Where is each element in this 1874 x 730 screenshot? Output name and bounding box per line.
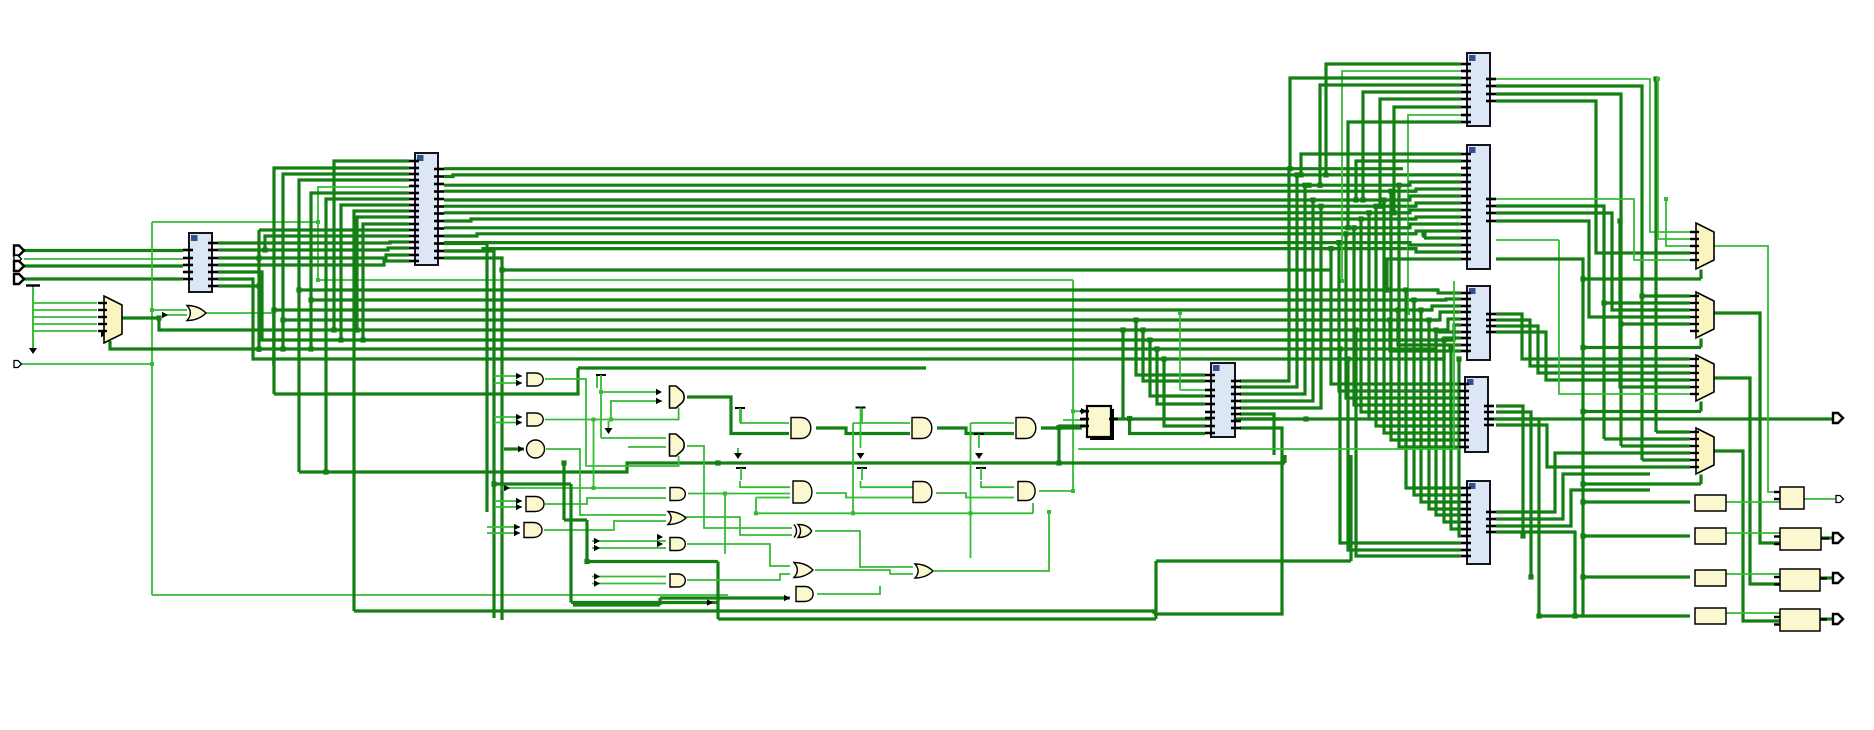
wire h484 <box>494 482 571 485</box>
input arrow <box>101 331 107 337</box>
wire a5-b4in2 <box>544 521 666 530</box>
wire y3 out <box>1819 576 1833 579</box>
wire r4 y426 <box>1376 206 1459 426</box>
wire b5-c4in1 <box>687 544 790 566</box>
wire mux input <box>33 302 97 304</box>
mux M0 pin stubs <box>98 303 107 331</box>
wire r3p9 <box>1398 310 1461 345</box>
junction <box>1601 300 1606 305</box>
wire thin y449 <box>1078 448 1460 450</box>
junction <box>1377 204 1382 209</box>
wire r4 y440 <box>1391 191 1459 440</box>
wire c2 in2 <box>756 497 790 499</box>
wire r5 up <box>1496 474 1650 519</box>
wire bus1 line y242.6 <box>444 241 1410 244</box>
wire bus1 line y168.7 <box>444 167 1403 170</box>
input arrow <box>594 573 600 579</box>
wire r1p1 <box>1326 64 1461 175</box>
wire sb2 in <box>1583 534 1690 537</box>
wire r3 y306 <box>1426 306 1461 310</box>
wire jog y191.2-189 <box>1408 189 1461 191</box>
wire r5 y509 <box>1429 320 1461 509</box>
junction <box>1140 327 1145 332</box>
wire sb4 ext <box>1539 614 1583 617</box>
wire h561 <box>587 560 718 563</box>
wire line y270 <box>444 258 1330 270</box>
wire r4 y433 <box>1384 200 1459 433</box>
or gate OR1 <box>187 306 206 321</box>
wire bottom bus y619 <box>718 617 1156 620</box>
junction <box>1133 317 1138 322</box>
junction <box>1337 346 1342 351</box>
wire r2 pin238 stub <box>1424 236 1461 239</box>
wire bus1 line y185.2 <box>444 184 1410 187</box>
mux M4 pin stubs <box>1690 432 1699 467</box>
wire mux out <box>121 316 159 319</box>
wire m1 in1 thin <box>1496 79 1690 232</box>
buffer B4 <box>1695 608 1726 624</box>
wire cr2 <box>1240 175 1297 387</box>
wire v1351 <box>1349 455 1352 561</box>
input pin B <box>14 256 22 263</box>
wire input d <box>22 363 152 365</box>
wire r1p7 <box>1394 107 1461 213</box>
wire r2p2 <box>1356 161 1461 200</box>
mux M2 <box>1696 292 1714 338</box>
wire bus1 line y233.8 <box>444 234 1416 236</box>
wire a1 out-b2sel <box>545 379 679 466</box>
inverter A3 <box>527 440 545 458</box>
junction <box>1071 489 1075 493</box>
wire m2 in2 <box>1496 206 1690 303</box>
register FD1 <box>1087 406 1114 440</box>
wire a1 in <box>494 375 522 377</box>
wire r3 y319 <box>1442 319 1461 330</box>
junction <box>150 308 154 312</box>
junction <box>1353 197 1358 202</box>
wire bus2 thin line <box>318 279 1073 281</box>
wire a2-b1in2 <box>611 401 662 420</box>
junction <box>1302 183 1307 188</box>
and gate B3 <box>670 488 685 501</box>
junction <box>1358 216 1363 221</box>
junction <box>256 346 261 351</box>
wire c5 out <box>817 586 880 594</box>
wire jog y212.8-210 <box>1402 210 1461 213</box>
wire m2 in4 <box>1496 221 1690 317</box>
junction <box>1580 345 1585 350</box>
junction <box>1336 240 1341 245</box>
junction <box>599 390 603 394</box>
wire bus2 y290 <box>299 288 1438 291</box>
wire bl-b p2 <box>218 248 409 250</box>
wire c-in 3 <box>1157 349 1205 404</box>
wire input c <box>24 264 183 267</box>
junction <box>1287 166 1292 171</box>
wire c-in 2 <box>1150 340 1205 396</box>
input arrow <box>516 419 522 425</box>
output pin O4 <box>1833 573 1843 583</box>
wire mux input <box>33 330 97 332</box>
wire y513 left <box>756 512 846 514</box>
junction <box>1345 356 1350 361</box>
mux M1 <box>1696 223 1714 269</box>
junction <box>1418 307 1423 312</box>
wire m3 sel stub <box>1699 402 1702 412</box>
wire m2 sel stub <box>1699 339 1702 348</box>
wire sb1 in <box>1583 500 1690 503</box>
buffer B2 <box>1695 528 1726 544</box>
wire r4 y412 <box>1361 219 1459 412</box>
junction <box>1306 183 1311 188</box>
input arrow <box>504 485 510 491</box>
wire m4 in3 <box>1621 444 1690 447</box>
wire b2 in2 <box>628 446 666 448</box>
wire bus2 line y340 <box>218 272 1454 340</box>
junction <box>1580 499 1585 504</box>
input pin A <box>14 246 24 256</box>
wire a5 in <box>487 526 520 528</box>
junction <box>1294 172 1299 177</box>
wire t-d2 <box>861 481 915 487</box>
input arrow <box>594 580 600 586</box>
junction <box>1353 327 1358 332</box>
input pin D <box>14 361 22 368</box>
wire m4 in4 <box>1496 453 1690 512</box>
constant T6 <box>857 468 867 480</box>
wire t1-b1 <box>601 391 658 393</box>
block U7 logic <box>1459 377 1494 452</box>
wire r5 y502 <box>1421 310 1461 502</box>
wire bus1 line y227.8 <box>444 226 1410 229</box>
wire r4 y447 <box>1399 185 1459 447</box>
junction <box>1448 346 1453 351</box>
block U6 logic <box>1461 286 1496 360</box>
output pin O3 <box>1833 533 1843 543</box>
junction <box>308 297 313 302</box>
wire a2 in <box>494 416 522 418</box>
input arrow <box>656 398 662 404</box>
wire v1642 ext <box>1640 296 1643 460</box>
wire cr5 <box>1240 206 1321 408</box>
wire d1-e1 <box>937 428 1014 434</box>
junction <box>1441 337 1446 342</box>
wire stair b236 <box>265 236 409 250</box>
wire r3 y312 <box>1434 312 1461 320</box>
wire stair b224 <box>363 224 409 340</box>
or gate D3 <box>915 564 933 578</box>
wire m1 in2 thin <box>1658 79 1690 239</box>
wire m4 out <box>1714 451 1780 621</box>
junction <box>1310 197 1315 202</box>
wire v259 <box>257 230 260 352</box>
input arrow <box>657 534 663 540</box>
junction <box>1303 416 1308 421</box>
junction <box>1384 287 1389 292</box>
wire bus1 line y206.2 <box>444 205 1416 208</box>
wire or input stub <box>162 314 187 316</box>
wire or input <box>152 309 187 311</box>
wire net1 vertical <box>151 222 153 595</box>
wire mux input <box>33 323 97 325</box>
junction <box>316 220 320 224</box>
block U2 register bank <box>409 153 444 265</box>
wire e1-reg <box>1041 426 1085 428</box>
junction <box>1639 293 1644 298</box>
input arrow <box>657 541 663 547</box>
wire bl-b p1 <box>218 242 409 243</box>
wire thin v1454 <box>1453 281 1455 449</box>
wire m3 in5 <box>1620 221 1690 387</box>
junction <box>1396 183 1401 188</box>
wire thin r2x <box>1496 239 1559 241</box>
ground G3 <box>605 421 613 434</box>
wire r5 y529 <box>1451 349 1461 529</box>
wire v487 <box>444 244 487 513</box>
junction <box>1366 210 1371 215</box>
wire m3 sel <box>1583 410 1701 413</box>
input arrow <box>516 414 522 420</box>
wire y4 out <box>1819 617 1833 620</box>
wire h605 <box>573 603 660 606</box>
buffer B1 <box>1695 495 1726 511</box>
junction <box>1395 307 1400 312</box>
wire bus1 line y219 <box>444 219 1416 221</box>
wire r5 y488 <box>1406 290 1461 488</box>
junction <box>256 255 261 260</box>
block U1 buffer bank <box>183 233 218 292</box>
junction <box>1536 613 1541 618</box>
junction <box>1071 409 1075 413</box>
wire v970 <box>970 423 972 558</box>
junction <box>1336 240 1341 245</box>
wire r2 v238 <box>1422 234 1425 238</box>
wire cr3 <box>1240 185 1305 394</box>
wire r4 y398 <box>1346 234 1459 398</box>
wire r1p8 thin <box>1408 115 1461 313</box>
junction <box>331 327 336 332</box>
wire r5p11 <box>1356 330 1461 556</box>
wire m3 in1 <box>1496 314 1690 359</box>
and gate E2 <box>1018 482 1035 501</box>
junction <box>1154 346 1159 351</box>
wire v1656 <box>1654 79 1657 432</box>
wire or out <box>205 313 273 366</box>
input arrow <box>518 446 524 452</box>
junction <box>308 346 313 351</box>
wire r2p15 <box>1387 259 1461 290</box>
junction <box>1340 279 1344 283</box>
wire regout-cin <box>1130 419 1205 434</box>
wire a5 in <box>487 532 520 534</box>
wire cr8 bottom <box>1154 428 1282 614</box>
block U5 register bank <box>1461 145 1496 269</box>
block U8 logic <box>1461 481 1496 564</box>
junction <box>1411 297 1416 302</box>
wire bl-b p3 <box>218 255 409 258</box>
junction <box>1147 337 1152 342</box>
wire b3 drop <box>724 494 726 555</box>
junction <box>1580 409 1585 414</box>
constant T4 <box>974 434 984 448</box>
input arrow <box>1081 408 1087 414</box>
wire line y394 <box>274 368 578 394</box>
wire cr6 <box>1240 414 1274 455</box>
junction <box>754 511 758 515</box>
junction <box>1056 460 1061 465</box>
wire jog y242.6-245 <box>1402 243 1461 245</box>
wire r1p6 <box>1380 99 1461 206</box>
wire v853 <box>852 423 854 513</box>
junction <box>1406 311 1410 315</box>
wire <box>755 498 757 514</box>
wire cr1 <box>1240 169 1289 381</box>
junction <box>150 362 154 366</box>
wire h561 <box>1156 559 1351 562</box>
wire c-thin v <box>1179 313 1181 390</box>
wire b6 in <box>592 576 666 578</box>
wire y513 hook <box>1032 503 1034 513</box>
input arrow <box>162 312 168 318</box>
or gate B4 <box>668 512 686 525</box>
wire stair b199 <box>326 199 409 472</box>
junction <box>1360 197 1365 202</box>
wire r5p10 <box>1348 359 1461 550</box>
wire reg in2 thin <box>1063 419 1085 421</box>
wire m2 in5 <box>1496 94 1690 324</box>
wire m4 in6 <box>1496 425 1690 467</box>
wire net y513 <box>846 512 1033 514</box>
junction <box>1572 613 1577 618</box>
obuf Y4 <box>1780 609 1820 631</box>
and gate C1 <box>791 418 811 439</box>
muxcy gate B1 <box>670 386 685 408</box>
junction <box>1426 317 1431 322</box>
block U4 mux bank <box>1461 53 1496 126</box>
wire thin b186 <box>318 186 409 188</box>
wire c-out stub <box>1240 417 1281 420</box>
wire mux input <box>33 316 97 318</box>
wire d2-e2 <box>936 493 1014 498</box>
junction <box>262 247 267 252</box>
junction <box>323 469 328 474</box>
wire sb1 out <box>1726 501 1780 503</box>
wire v502 <box>500 270 503 620</box>
wire v1621 ext <box>1619 324 1622 446</box>
wire m2 out <box>1714 313 1780 543</box>
junction <box>609 418 613 422</box>
junction <box>1373 204 1378 209</box>
mux M1 pin stubs <box>1690 232 1699 260</box>
wire bus2 y310 <box>274 308 1432 311</box>
junction <box>1343 231 1348 236</box>
wire c-in thin1 <box>1180 389 1205 391</box>
ground G1 bar <box>26 284 40 286</box>
junction <box>1323 172 1328 177</box>
junction <box>1433 327 1438 332</box>
wire tstub <box>596 375 598 388</box>
wire m3 in3 <box>1496 326 1690 373</box>
wire r5 y515 <box>1436 330 1461 515</box>
constant T7 <box>976 468 986 480</box>
wire net2 bottom <box>152 594 728 596</box>
junction <box>1345 225 1350 230</box>
junction <box>1120 327 1125 332</box>
wire d1 in1 <box>853 422 910 424</box>
wire v494 <box>444 251 494 618</box>
wire bus1 line y200 <box>444 198 1410 201</box>
constant T2 <box>735 408 745 423</box>
wire a4 in <box>494 500 522 502</box>
or gate C4 <box>794 563 813 578</box>
wire jog y200-196 <box>1402 196 1461 200</box>
junction <box>1653 76 1658 81</box>
junction <box>256 283 261 288</box>
and gate A2 <box>527 413 543 426</box>
xor gate C3 <box>794 525 812 538</box>
wire r5p4 drop <box>1496 532 1575 616</box>
junction <box>280 346 285 351</box>
junction <box>592 486 596 490</box>
wire b3in1 <box>500 487 666 489</box>
wire r3 y338 <box>1438 338 1461 359</box>
wire a4-b3in2 <box>545 498 666 504</box>
and gate C2 <box>793 481 812 503</box>
wire e1 in1 <box>971 422 1015 424</box>
junction <box>723 492 727 496</box>
junction <box>271 307 276 312</box>
wire sel chain <box>1496 259 1690 616</box>
junction <box>715 460 720 465</box>
wire input a <box>24 249 183 252</box>
wire c1-d1 <box>816 428 910 434</box>
wire c-in 4 <box>1164 359 1205 426</box>
junction <box>851 511 855 515</box>
junction <box>280 317 285 322</box>
wire bus1 line y248.6 <box>444 249 1416 251</box>
wire h602 <box>571 601 718 604</box>
wire net1 horizontal <box>152 221 318 223</box>
wire m4 in5 <box>1642 458 1690 461</box>
wire b2 out-c3in1 <box>687 446 792 528</box>
wire m4 in1 <box>1656 430 1690 433</box>
wire v660 <box>658 598 661 605</box>
ground G1 <box>29 286 37 354</box>
wire stair b193 <box>311 193 409 349</box>
wire stair b174 <box>283 174 409 349</box>
wire v1604 ext <box>1602 303 1605 439</box>
wire t-e2 <box>981 481 1014 487</box>
junction <box>592 418 596 422</box>
wire a4 in <box>494 506 522 508</box>
junction <box>1127 416 1132 421</box>
and gate C5 <box>796 587 813 602</box>
wire thin drop <box>1072 280 1074 491</box>
wire reg in thick <box>1060 426 1082 429</box>
wire line y472-463 <box>299 463 1285 472</box>
wire v601 <box>600 392 602 438</box>
mux M4 <box>1696 428 1714 474</box>
junction <box>156 315 161 320</box>
junction <box>316 278 320 282</box>
junction <box>1161 356 1166 361</box>
wire m4 sel <box>1583 482 1701 485</box>
constant T3 <box>856 408 866 449</box>
wire bl-b p4 <box>218 261 409 265</box>
wire m4 in2 <box>1604 437 1690 440</box>
junction <box>1580 533 1585 538</box>
wire r4p2 drop <box>1496 412 1531 577</box>
